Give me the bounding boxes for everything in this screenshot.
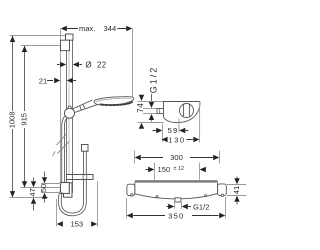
right handle cap (top view): [218, 184, 227, 196]
dimension 153: [57, 181, 98, 229]
lower step extension line: [10, 197, 49, 199]
rail top extension line: [10, 35, 67, 37]
dimension 150 ± 12: [146, 163, 206, 180]
left handle cap (top view): [127, 184, 135, 195]
dimension max. 344: [61, 24, 133, 33]
svg-text:153: 153: [70, 220, 83, 229]
bracket bottom extension line: [41, 192, 63, 194]
svg-text:1008: 1008: [8, 111, 17, 128]
body top extension line: [138, 101, 164, 103]
bracket top extension line: [41, 183, 62, 185]
dimension 74: [136, 95, 145, 129]
shower rail: [67, 36, 73, 194]
rail top cap: [66, 34, 74, 40]
svg-text:150: 150: [158, 165, 171, 174]
svg-text:300: 300: [170, 153, 183, 162]
top bracket extension line: [21, 45, 61, 47]
dimension 21: [39, 76, 76, 85]
left cap detail circle: [131, 194, 133, 196]
svg-text:130: 130: [168, 135, 185, 144]
hose nipple cap: [82, 145, 89, 152]
bracket centre extension line: [21, 187, 61, 189]
svg-text:344: 344: [104, 24, 117, 33]
G1/2 label (side view): [148, 66, 158, 122]
hand shower head: [94, 97, 134, 107]
dimension 350: [127, 197, 226, 220]
slider knob: [65, 108, 75, 118]
svg-text:G1/2: G1/2: [148, 66, 158, 94]
svg-text:max.: max.: [79, 24, 95, 33]
top wall bracket: [61, 40, 70, 50]
svg-text:22: 22: [97, 60, 106, 69]
dimension 130: [162, 135, 200, 144]
dimension G1/2 (top view): [167, 202, 210, 211]
dimension 59: [153, 126, 189, 135]
svg-text:± 12: ± 12: [174, 166, 184, 172]
svg-text:350: 350: [168, 211, 184, 220]
bottom bracket rear step: [64, 183, 73, 197]
dimension 50: [39, 172, 48, 203]
dimension O 22: [57, 60, 106, 69]
outlet stub (top view): [175, 198, 181, 202]
dimension 1008: [8, 36, 17, 197]
extension line body left: [162, 124, 164, 143]
svg-text:915: 915: [20, 113, 29, 126]
right cap detail circle: [221, 194, 223, 196]
extension line knob face: [178, 119, 180, 133]
stub bottom extension line: [143, 113, 157, 115]
stub top extension line: [143, 108, 157, 110]
thermostat body (side view): [164, 102, 201, 123]
svg-text:59: 59: [168, 126, 179, 135]
dimension 915: [20, 46, 29, 188]
hand shower handle: [73, 100, 97, 112]
hose break marks: [53, 133, 70, 156]
bottom wall bracket: [61, 183, 70, 194]
extension line body right: [199, 104, 201, 143]
shelf bar body (top view): [135, 183, 218, 199]
svg-text:50: 50: [39, 184, 48, 192]
dimension 47: [28, 178, 37, 211]
extension line from shower head tip: [132, 29, 134, 98]
svg-text:41: 41: [232, 186, 241, 194]
dimension 300: [135, 151, 220, 164]
body bottom extension line: [138, 122, 164, 124]
rail lines through shelf: [66, 175, 68, 179]
svg-text:74: 74: [136, 103, 145, 113]
svg-text:Ø: Ø: [86, 60, 92, 69]
hose pillar lines through shelf: [82, 175, 84, 179]
svg-text:21: 21: [39, 76, 47, 85]
thermostat knob (side view): [180, 104, 194, 118]
shelf (soap dish edge view): [67, 175, 94, 180]
wall line: [60, 29, 62, 184]
dimension 41: [227, 177, 246, 205]
shower hose hanging loop: [60, 116, 85, 214]
screw nub right: [205, 195, 207, 197]
svg-text:G1/2: G1/2: [193, 202, 209, 211]
slider pivot nub: [68, 106, 71, 109]
G1/2 pipe stub (side view): [157, 109, 164, 114]
svg-text:47: 47: [28, 188, 37, 196]
screw nub left: [156, 196, 158, 198]
shelf bar top band (top view): [135, 180, 218, 182]
